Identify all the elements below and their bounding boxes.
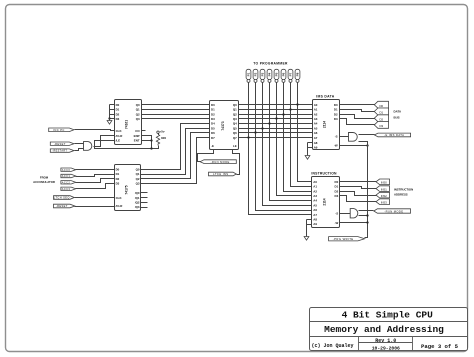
svg-text:-S: -S xyxy=(335,211,338,215)
wire U8 output to -RUN MODE flag xyxy=(359,210,374,212)
svg-text:ACC1: ACC1 xyxy=(62,174,71,178)
svg-text:D1: D1 xyxy=(211,108,215,112)
svg-text:Q3: Q3 xyxy=(136,117,140,121)
svg-text:A3: A3 xyxy=(313,194,317,198)
svg-text:Page 3 of 5: Page 3 of 5 xyxy=(421,343,459,350)
svg-text:D3: D3 xyxy=(116,182,120,186)
svg-text:D3: D3 xyxy=(116,117,120,121)
net flag D0 xyxy=(374,101,388,108)
net flag D1 xyxy=(374,108,388,115)
svg-text:Q3: Q3 xyxy=(233,117,237,121)
svg-text:-E: -E xyxy=(211,144,214,148)
wire U1 Q0 to U3 D0 xyxy=(142,104,210,106)
svg-text:D6: D6 xyxy=(211,131,215,135)
net flag -RESTART xyxy=(50,149,74,153)
wire -RESET to U2 /CLR xyxy=(75,206,115,208)
wire U7 lower input hook xyxy=(359,142,368,146)
net flag ACC3 xyxy=(61,187,76,191)
svg-text:A0: A0 xyxy=(314,103,318,107)
wire U8 lower input hook xyxy=(359,214,369,216)
svg-text:-RESET: -RESET xyxy=(56,204,68,208)
svg-text:A7: A7 xyxy=(313,213,317,217)
svg-text:/CLR: /CLR xyxy=(116,204,124,208)
junction J1 col3 / U3 Q5 xyxy=(261,127,263,129)
wire U3 Q3 to U4 A3 xyxy=(239,118,313,120)
ram U4 2114 IMS DATA xyxy=(313,100,340,150)
wire U1 ENT xyxy=(142,139,153,149)
svg-text:74175: 74175 xyxy=(125,185,129,194)
svg-text:D3: D3 xyxy=(334,194,338,198)
counter U1 74161 xyxy=(115,100,142,145)
svg-text:D1: D1 xyxy=(334,185,338,189)
svg-text:ENT: ENT xyxy=(134,139,140,143)
svg-text:+5v: +5v xyxy=(160,129,165,133)
wire U4 D0 to flag D0 xyxy=(340,104,375,106)
net flag LTCH INS xyxy=(209,172,237,176)
wire U4 -S to U7 input xyxy=(340,136,349,138)
svg-text:D1: D1 xyxy=(116,108,120,112)
svg-text:10-29-2006: 10-29-2006 xyxy=(372,346,400,352)
wire U7 output to -E IMS DATA flag xyxy=(359,134,375,136)
wire U1 Q2 to U3 D2 xyxy=(142,114,210,116)
svg-text:ACC0: ACC0 xyxy=(62,168,71,172)
svg-text:/Q1: /Q1 xyxy=(135,196,140,200)
svg-text:Q2: Q2 xyxy=(136,112,140,116)
power +5v xyxy=(157,129,165,133)
wire U3 Q5 to U4 A5 xyxy=(239,128,313,130)
svg-text:LE: LE xyxy=(233,144,237,148)
svg-text:D1: D1 xyxy=(379,111,383,115)
svg-text:D5: D5 xyxy=(211,126,215,130)
wire U5 D0 to flag INS0 xyxy=(340,181,377,183)
svg-text:A1: A1 xyxy=(313,185,317,189)
svg-text:D2: D2 xyxy=(116,177,120,181)
svg-text:A5: A5 xyxy=(313,203,317,207)
and-gate U7 xyxy=(349,133,358,142)
svg-text:INS2: INS2 xyxy=(381,194,387,198)
wire J1 pin 2 to U5 A6 xyxy=(256,83,312,211)
net flag D3 xyxy=(374,122,388,129)
wire U5 D3 to flag INS3 xyxy=(340,196,377,202)
junction J1 col1 / U3 Q7 xyxy=(247,136,249,138)
svg-text:D0: D0 xyxy=(116,167,120,171)
note DATA BUS xyxy=(394,110,403,120)
svg-text:D1: D1 xyxy=(334,108,338,112)
svg-text:CLK: CLK xyxy=(116,129,123,133)
wire U3 LE to LTCH INS flag xyxy=(233,150,240,175)
net flag ACC1 xyxy=(61,174,76,178)
svg-text:D1: D1 xyxy=(116,172,120,176)
svg-text:Q1: Q1 xyxy=(136,172,140,176)
svg-text:-S: -S xyxy=(335,134,338,138)
svg-text:INSTRUCTION: INSTRUCTION xyxy=(394,187,413,191)
svg-text:LTCH SEQ: LTCH SEQ xyxy=(54,196,70,200)
net flag INS0 xyxy=(376,179,390,185)
wire U4 A8/A9 tie xyxy=(308,143,313,153)
wire J1 pin 1 to U5 A7 xyxy=(249,83,312,215)
svg-text:2114: 2114 xyxy=(323,198,327,205)
net flag -RUN MODE (U3) xyxy=(200,160,236,164)
svg-text:IMS DATA: IMS DATA xyxy=(316,94,335,98)
wire U5 D2 to flag INS2 xyxy=(340,192,377,196)
wire U1 /LE pull-up loop xyxy=(95,141,159,149)
net flag ACC0 xyxy=(61,168,76,172)
net flag LTCH SEQ xyxy=(54,196,75,200)
svg-text:LTCH INS: LTCH INS xyxy=(213,172,228,176)
svg-text:74161: 74161 xyxy=(125,120,129,129)
svg-text:Q0: Q0 xyxy=(136,103,140,107)
svg-text:DATA: DATA xyxy=(394,110,403,114)
svg-text:D2: D2 xyxy=(116,112,120,116)
svg-text:D2: D2 xyxy=(334,189,338,193)
wire U3 Q7 to U4 A7 xyxy=(239,137,313,139)
svg-text:300: 300 xyxy=(161,136,166,140)
svg-text:D0: D0 xyxy=(211,103,215,107)
wire INC PC to U1 CLK xyxy=(75,130,115,131)
svg-text:Q7: Q7 xyxy=(233,136,237,140)
svg-text:Q6: Q6 xyxy=(233,131,237,135)
net flag -E IMS DATA xyxy=(374,133,410,137)
wire U2 Q3 to U3 D7 xyxy=(141,138,210,184)
svg-text:Q2: Q2 xyxy=(136,177,140,181)
ground G3 xyxy=(304,236,309,241)
svg-text:P6: P6 xyxy=(282,72,286,76)
net flag -PRG WRITE xyxy=(329,237,365,242)
svg-text:A3: A3 xyxy=(314,117,318,121)
wire ACC1 to U2 D1 xyxy=(76,175,115,177)
svg-text:A4: A4 xyxy=(314,122,318,126)
connector J1 pin 4 xyxy=(267,69,272,82)
svg-text:A6: A6 xyxy=(314,131,318,135)
junction J1 col6 / U3 Q2 xyxy=(282,113,284,115)
ground G2 xyxy=(305,153,310,160)
svg-text:Q1: Q1 xyxy=(136,108,140,112)
svg-text:D0: D0 xyxy=(116,103,120,107)
wire U4 D3 to flag D3 xyxy=(340,119,375,125)
svg-text:Q1: Q1 xyxy=(233,108,237,112)
title block xyxy=(310,308,468,352)
latch U3 74373 xyxy=(210,101,239,150)
svg-text:A9: A9 xyxy=(313,222,317,226)
wire J1 pin 8 to U5 A0 xyxy=(298,83,312,182)
svg-text:D2: D2 xyxy=(334,112,338,116)
svg-text:A1: A1 xyxy=(314,108,318,112)
wire U3 Q6 to U4 A6 xyxy=(239,132,313,134)
wire U3 Q1 to U4 A1 xyxy=(239,109,313,111)
svg-text:A5: A5 xyxy=(314,126,318,130)
and-gate U6 xyxy=(84,142,92,151)
svg-text:A2: A2 xyxy=(314,112,318,116)
svg-text:-W: -W xyxy=(334,144,338,148)
svg-text:Q0: Q0 xyxy=(136,167,140,171)
svg-text:/LE: /LE xyxy=(116,139,121,143)
svg-text:CLK: CLK xyxy=(116,196,123,200)
svg-text:P2: P2 xyxy=(254,72,258,76)
wire U4 -W xyxy=(340,144,369,146)
svg-text:A8: A8 xyxy=(314,141,318,145)
wire U4 D2 to flag D2 xyxy=(340,115,375,119)
wire U4 D1 to flag D1 xyxy=(340,110,375,112)
wire ACC0 to U2 D0 xyxy=(76,169,115,171)
wire -RESTART to U6 input xyxy=(75,149,84,151)
wire U2 Q2 to U3 D6 xyxy=(141,133,210,179)
svg-text:ADDRESS: ADDRESS xyxy=(394,192,408,196)
wire U1 D0-D3 tie xyxy=(108,105,114,120)
wire U2 /Q stubs xyxy=(141,193,148,208)
wire U5 A8/A9 tie xyxy=(307,220,312,236)
svg-text:INS3: INS3 xyxy=(381,201,387,205)
svg-text:ACC3: ACC3 xyxy=(62,187,71,191)
svg-text:74373: 74373 xyxy=(221,121,225,130)
note IMS DATA xyxy=(316,94,335,98)
junction J1 col4 / U3 Q4 xyxy=(268,122,270,124)
svg-text:Memory and Addressing: Memory and Addressing xyxy=(324,324,444,335)
svg-text:D0: D0 xyxy=(379,104,383,108)
note INSTRUCTION ADDRESS xyxy=(394,187,413,196)
wire U5 -W xyxy=(340,221,369,223)
svg-text:-RESET: -RESET xyxy=(54,142,66,146)
note INSTRUCTION xyxy=(311,172,337,176)
net flag -RESET xyxy=(50,142,74,146)
svg-text:A8: A8 xyxy=(313,218,317,222)
svg-text:D3: D3 xyxy=(211,117,215,121)
connector J1 pin 3 xyxy=(260,69,265,82)
svg-text:CO: CO xyxy=(135,129,140,133)
wire J1 pin 6 to U5 A2 xyxy=(284,83,312,192)
junction J1 col7 / U3 Q1 xyxy=(289,108,291,110)
svg-text:BUS: BUS xyxy=(394,116,400,120)
svg-text:D0: D0 xyxy=(334,180,338,184)
svg-text:/Q3: /Q3 xyxy=(135,205,140,209)
wire J1 pin 5 to U5 A3 xyxy=(277,83,312,196)
svg-text:INS1: INS1 xyxy=(381,187,387,191)
wire U5 -S to U8 input xyxy=(340,213,351,215)
wire -RESET to U6 input xyxy=(75,143,84,145)
svg-text:-RUN MODE: -RUN MODE xyxy=(211,160,230,164)
svg-text:D3: D3 xyxy=(379,124,383,128)
svg-text:-RESTART: -RESTART xyxy=(52,150,67,153)
svg-text:INC PC: INC PC xyxy=(53,128,65,132)
svg-text:P8: P8 xyxy=(296,72,300,76)
net flag INS1 xyxy=(376,186,390,192)
resistor R1 300 xyxy=(156,134,166,146)
svg-text:D4: D4 xyxy=(211,122,215,126)
latch U2 74175 xyxy=(115,165,141,211)
net flag -RUN MODE (U5) xyxy=(374,209,411,214)
wire J1 pin 7 to U5 A1 xyxy=(291,83,312,187)
svg-text:/Q0: /Q0 xyxy=(135,191,140,195)
note FROM ACCUMULATOR xyxy=(33,176,55,184)
connector J1 pin 2 xyxy=(253,69,258,82)
svg-text:-RUN MODE: -RUN MODE xyxy=(384,209,403,213)
svg-text:TO PROGRAMMER: TO PROGRAMMER xyxy=(253,62,288,66)
net flag D2 xyxy=(374,115,388,122)
svg-text:ACC2: ACC2 xyxy=(62,180,71,184)
svg-text:ENP: ENP xyxy=(134,134,140,138)
svg-text:D2: D2 xyxy=(211,112,215,116)
svg-text:Rev 1.0: Rev 1.0 xyxy=(375,338,396,344)
svg-text:-E IMS DATA: -E IMS DATA xyxy=(384,133,404,137)
junction J1 col5 / U3 Q3 xyxy=(275,117,277,119)
svg-text:A6: A6 xyxy=(313,208,317,212)
svg-text:P1: P1 xyxy=(247,72,251,76)
svg-text:INS0: INS0 xyxy=(381,181,387,185)
wire J1 pin 3 to U5 A5 xyxy=(263,83,312,206)
svg-text:4 Bit Simple CPU: 4 Bit Simple CPU xyxy=(342,310,434,321)
note TO PROGRAMMER xyxy=(253,62,288,66)
net flag INS3 xyxy=(376,199,390,205)
svg-text:-PRG WRITE: -PRG WRITE xyxy=(333,237,354,241)
wire ACC2 to U2 D2 xyxy=(76,179,115,183)
wire U2 Q1 to U3 D5 xyxy=(141,129,210,175)
svg-text:ACCUMULATOR: ACCUMULATOR xyxy=(33,180,55,184)
wire U3 -E to -RUN MODE flag xyxy=(198,150,214,162)
svg-text:D7: D7 xyxy=(211,136,215,140)
svg-text:A7: A7 xyxy=(314,136,318,140)
wire U3 Q4 to U4 A4 xyxy=(239,123,313,125)
svg-text:A0: A0 xyxy=(313,180,317,184)
wire LTCH SEQ to U2 CLK xyxy=(75,197,115,199)
svg-text:Q5: Q5 xyxy=(233,126,237,130)
wire U1 ENP xyxy=(142,136,152,149)
net flag INS2 xyxy=(376,192,390,198)
svg-text:Q3: Q3 xyxy=(136,182,140,186)
connector J1 pin 6 xyxy=(281,69,286,82)
svg-text:A9: A9 xyxy=(314,146,318,150)
wire J1 pin 4 to U5 A4 xyxy=(270,83,312,201)
svg-text:2114: 2114 xyxy=(323,121,327,128)
connector J1 pin 7 xyxy=(288,69,293,82)
ram U5 2114 INSTRUCTION xyxy=(312,177,340,228)
wire ACC3 to U2 D3 xyxy=(76,184,115,189)
wire U3 Q2 to U4 A2 xyxy=(239,114,313,116)
connector J1 pin 8 xyxy=(295,69,300,82)
svg-text:P4: P4 xyxy=(268,72,272,76)
wire U1 Q1 to U3 D1 xyxy=(142,109,210,111)
wire write-enable vertical xyxy=(365,142,368,238)
svg-text:D3: D3 xyxy=(334,117,338,121)
wire U1 CO stub xyxy=(142,130,146,132)
svg-text:(c) Jon Qualey: (c) Jon Qualey xyxy=(312,343,354,349)
svg-text:Q4: Q4 xyxy=(233,122,237,126)
svg-text:A2: A2 xyxy=(313,189,317,193)
junction J1 col2 / U3 Q6 xyxy=(254,131,256,133)
svg-text:P3: P3 xyxy=(261,72,265,76)
svg-text:/CLR: /CLR xyxy=(116,134,124,138)
wire U3 Q0 to U4 A0 xyxy=(239,104,313,106)
svg-text:A4: A4 xyxy=(313,199,317,203)
svg-text:Q0: Q0 xyxy=(233,103,237,107)
ground G1 xyxy=(107,119,112,125)
wire U1 Q3 to U3 D3 xyxy=(142,118,210,120)
net flag -RESET (lower) xyxy=(54,204,75,208)
svg-text:P5: P5 xyxy=(275,72,279,76)
svg-text:D0: D0 xyxy=(334,103,338,107)
net flag ACC2 xyxy=(61,180,76,184)
wire U5 D1 to flag INS1 xyxy=(340,187,377,189)
svg-text:/Q2: /Q2 xyxy=(135,201,140,205)
connector J1 pin 5 xyxy=(274,69,279,82)
svg-text:-W: -W xyxy=(334,221,338,225)
connector J1 pin 1 xyxy=(246,69,251,82)
wire U6 output to U1 /CLR xyxy=(94,136,115,147)
svg-text:D2: D2 xyxy=(379,117,383,121)
wire U2 Q0 to U3 D4 xyxy=(141,124,210,170)
svg-text:Q2: Q2 xyxy=(233,112,237,116)
net flag INC PC xyxy=(49,128,74,132)
and-gate U8 xyxy=(350,209,358,218)
svg-text:P7: P7 xyxy=(289,72,293,76)
junction J1 col8 / U3 Q0 xyxy=(296,103,298,105)
svg-text:INSTRUCTION: INSTRUCTION xyxy=(311,172,337,176)
